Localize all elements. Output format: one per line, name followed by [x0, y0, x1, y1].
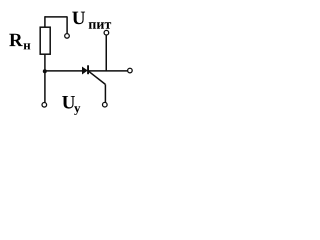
thyristor arrow — [82, 67, 87, 74]
wire down to supply terminal — [66, 16, 68, 33]
label U_y subscript "у" — [74, 106, 80, 115]
wire top horizontal — [45, 16, 67, 18]
label R_n subscript "н" — [24, 43, 31, 49]
terminal top right — [104, 30, 109, 35]
wire from top-right terminal down — [105, 35, 107, 71]
terminal right — [128, 68, 133, 73]
label U_y "U" — [62, 96, 75, 109]
terminal U_y — [42, 103, 47, 108]
thyristor cathode bar — [87, 65, 89, 74]
wire resistor bottom lead down to Uy terminal — [44, 54, 46, 103]
junction node — [43, 69, 47, 73]
label U_pit subscript "пит" — [89, 22, 111, 28]
label U_pit "U" — [72, 12, 85, 25]
resistor Rn body — [40, 27, 50, 54]
label R_n "R" — [9, 34, 22, 46]
wire gate vertical — [104, 84, 106, 102]
wire gate diagonal — [89, 71, 106, 84]
wire base line to right terminal — [89, 70, 128, 72]
wire resistor top lead — [44, 16, 46, 27]
terminal bottom right — [103, 102, 108, 107]
wire emitter horizontal — [45, 70, 82, 72]
terminal U_pit — [65, 34, 70, 39]
